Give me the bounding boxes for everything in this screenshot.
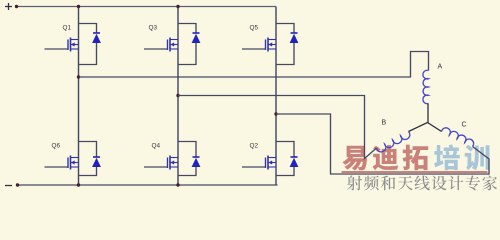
node: leg 2 bottom rail junction: [176, 183, 179, 186]
wire: +V top rail: [17, 6, 277, 8]
node: leg 1 bottom rail junction: [77, 183, 80, 186]
wire: winding C to star point: [428, 123, 442, 132]
+ supply terminal: [5, 3, 12, 10]
node: leg 2 top rail junction: [176, 5, 179, 8]
diode across Q5: [290, 33, 299, 43]
transistor Q5: [266, 38, 277, 52]
svg-text:Q4: Q4: [152, 143, 161, 150]
svg-text:B: B: [382, 120, 387, 127]
node: phase junction leg 2: [176, 94, 179, 97]
watermark slogan text: [347, 175, 497, 190]
wire: phase A from leg 1 to winding A: [79, 52, 429, 78]
svg-text:Q6: Q6: [52, 143, 61, 150]
svg-text:Q2: Q2: [250, 143, 259, 150]
winding B (inductor): [377, 132, 410, 152]
wire: Q1 freewheel diode loop: [79, 24, 97, 34]
wire: Q3 freewheel diode loop: [178, 24, 196, 34]
svg-text:Q1: Q1: [63, 25, 72, 32]
wire: leg 3 vertical (Q5 drain to Q2 source): [275, 7, 277, 186]
wire: Q4 freewheel diode loop: [178, 142, 196, 158]
wire: Q6 freewheel diode loop: [79, 142, 97, 158]
transistor Q2: [266, 156, 277, 170]
wire: Q3 gate lead: [144, 48, 168, 50]
transistor Q6: [68, 156, 79, 170]
svg-text:Q5: Q5: [250, 25, 259, 32]
winding A (inductor): [423, 70, 429, 103]
node: phase junction leg 3: [274, 112, 277, 115]
svg-text:C: C: [462, 122, 467, 129]
transistor Q4: [168, 156, 179, 170]
wire: Q4 gate lead: [144, 166, 168, 168]
winding C (inductor): [442, 128, 474, 147]
transistor Q1: [68, 38, 79, 52]
diode across Q1: [92, 33, 101, 43]
node: -V rail start junction: [16, 183, 19, 186]
wire: leg 1 vertical (Q1 drain to Q6 source): [78, 7, 80, 186]
node: +V rail start junction: [15, 5, 18, 8]
- supply terminal: [5, 185, 12, 187]
wire: phase B from leg 2 to winding B: [178, 96, 377, 159]
diode across Q4: [192, 157, 201, 167]
watermark underline: [342, 171, 488, 173]
diode across Q6: [92, 157, 101, 167]
svg-text:A: A: [438, 64, 443, 71]
wire: Q2 freewheel diode loop: [276, 142, 294, 158]
wire: Q2 gate lead: [242, 166, 266, 168]
wire: winding B to star point: [409, 123, 428, 132]
node: leg 1 top rail junction: [77, 5, 80, 8]
wire: -V bottom rail: [18, 184, 278, 186]
wire: Q6 gate lead: [45, 166, 69, 168]
wire: phase C from leg 3 to winding C: [276, 114, 489, 174]
node: phase junction leg 1: [77, 75, 80, 78]
wire: leg 2 vertical (Q3 drain to Q4 source): [177, 7, 179, 186]
wire: Q5 gate lead: [242, 48, 266, 50]
svg-text:Q3: Q3: [149, 25, 158, 32]
wire: winding A to star point: [427, 104, 429, 123]
wire: Q1 gate lead: [45, 48, 69, 50]
transistor Q3: [168, 38, 179, 52]
wire: Q5 freewheel diode loop: [276, 24, 294, 34]
watermark logo text: [342, 145, 489, 171]
diode across Q2: [290, 157, 299, 167]
diode across Q3: [192, 33, 201, 43]
